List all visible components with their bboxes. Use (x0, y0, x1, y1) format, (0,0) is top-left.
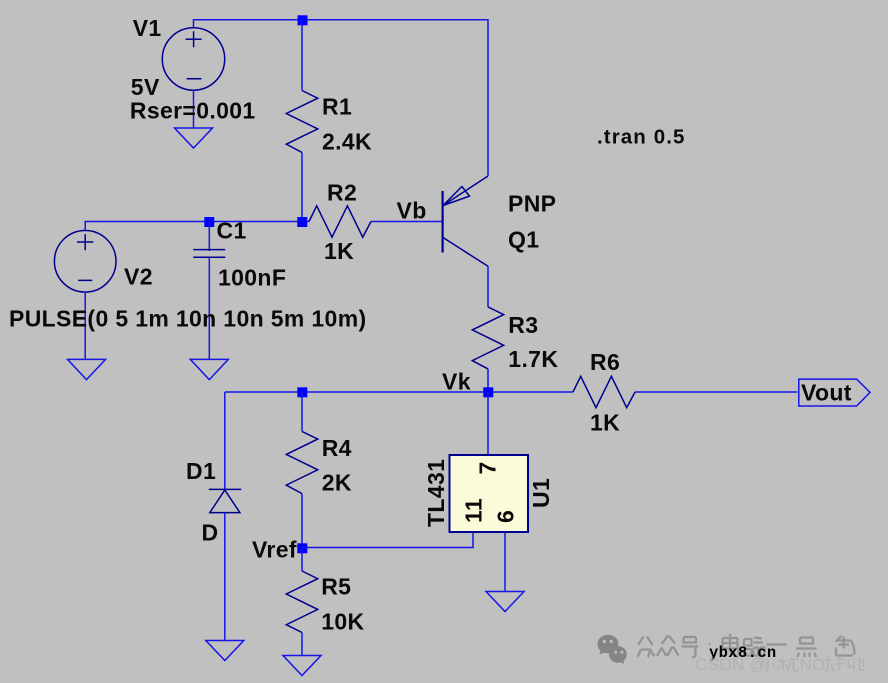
resistor R4 (286, 392, 317, 548)
node junction Vk (483, 387, 493, 397)
ground C1 (190, 359, 228, 379)
resistor R1 (286, 20, 317, 222)
svg-text:Rser=0.001: Rser=0.001 (130, 98, 256, 124)
wire D1 branch (224, 392, 226, 489)
svg-text:Vb: Vb (397, 198, 427, 224)
transistor Q1 PNP (443, 176, 488, 266)
ground D1 (206, 641, 244, 661)
svg-text:V1: V1 (133, 15, 162, 41)
wire mid rail V2 to R2 (85, 222, 309, 232)
svg-text:R5: R5 (321, 574, 351, 600)
wire U1 pin 6 to ground (504, 532, 506, 592)
svg-text:TL431: TL431 (423, 459, 449, 527)
svg-text:7: 7 (475, 461, 501, 474)
wire Vref to U1 pin 11 (302, 532, 473, 548)
wire bottom rail left (225, 391, 573, 393)
svg-text:V2: V2 (124, 264, 153, 290)
svg-text:Q1: Q1 (508, 227, 539, 253)
wire V1 to ground (193, 90, 195, 128)
svg-text:10K: 10K (321, 609, 364, 635)
ground U1 (486, 592, 524, 612)
ground V1 (175, 128, 213, 148)
svg-text:11: 11 (461, 498, 487, 523)
wire D1 to ground (224, 513, 226, 641)
svg-text:Vref: Vref (252, 537, 297, 563)
node junction C1 top (204, 217, 214, 227)
svg-text:D: D (202, 520, 219, 546)
voltage source V2 (54, 230, 116, 292)
wire Vk to U1 pin 7 (487, 392, 489, 455)
svg-text:R2: R2 (327, 180, 357, 206)
wire top rail from V1 to emitter vertical (194, 20, 489, 176)
svg-text:6: 6 (493, 510, 519, 523)
node junction rail R4 (297, 387, 307, 397)
flag Vout (799, 379, 870, 406)
svg-text:PULSE(0 5 1m 10n 10n 5m 10m): PULSE(0 5 1m 10n 10n 5m 10m) (9, 306, 367, 332)
resistor R5 (286, 548, 317, 656)
svg-text:100nF: 100nF (218, 265, 286, 291)
resistor R3 (472, 307, 503, 392)
svg-text:R4: R4 (322, 435, 352, 461)
svg-text:Vk: Vk (442, 369, 471, 395)
svg-text:1K: 1K (590, 410, 620, 436)
node junction top rail R1 (298, 15, 308, 25)
resistor R2 (309, 206, 442, 237)
svg-text:5V: 5V (131, 74, 160, 100)
voltage source V1 (162, 28, 224, 90)
svg-text:2.4K: 2.4K (322, 129, 372, 155)
svg-text:R6: R6 (590, 349, 620, 375)
svg-text:C1: C1 (217, 218, 247, 244)
wire bottom rail right to Vout (635, 391, 797, 393)
svg-text:R3: R3 (508, 312, 538, 338)
svg-text:U1: U1 (528, 478, 554, 508)
svg-text:Vout: Vout (801, 380, 852, 406)
capacitor C1 (193, 222, 225, 360)
node junction Vref (297, 543, 307, 553)
wire V2 to ground (84, 292, 86, 360)
wire collector to R3 (487, 266, 489, 307)
svg-text:R1: R1 (322, 94, 352, 120)
diode D1 (209, 489, 241, 512)
ground V2 (68, 359, 106, 379)
svg-text:NO: NO (800, 657, 825, 675)
node junction R1 bottom R2 left (297, 217, 307, 227)
svg-text:1K: 1K (324, 238, 354, 264)
svg-text:2K: 2K (322, 470, 352, 496)
svg-text:CSDN @: CSDN @ (695, 655, 767, 674)
svg-text:D1: D1 (186, 458, 216, 484)
svg-text:PNP: PNP (508, 191, 556, 217)
IC U1 TL431 body (450, 455, 529, 532)
resistor R6 (573, 376, 635, 407)
ground R5 (283, 656, 321, 676)
svg-text:.tran 0.5: .tran 0.5 (597, 126, 686, 149)
svg-text:1.7K: 1.7K (508, 346, 558, 372)
